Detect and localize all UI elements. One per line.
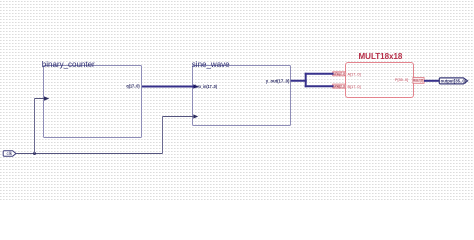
svg-text:P[35..0]: P[35..0] xyxy=(395,78,408,82)
output pin output[35..0] xyxy=(439,78,467,84)
svg-text:MULT18x18: MULT18x18 xyxy=(359,52,403,61)
svg-text:binary_counter: binary_counter xyxy=(42,60,95,69)
pin stub result xyxy=(413,78,424,84)
svg-text:clk: clk xyxy=(6,151,12,156)
wire bus fork vertical xyxy=(305,73,307,87)
svg-text:hex_in(17..0): hex_in(17..0) xyxy=(195,84,218,89)
bus q(17..0) from binary_counter to sine_wave xyxy=(142,86,194,88)
svg-text:DATAA[17..0]: DATAA[17..0] xyxy=(333,72,345,76)
wire clk branch up to binary_counter xyxy=(34,99,36,154)
pin stub dataa xyxy=(333,72,346,76)
arrowhead sine_wave hex_in input xyxy=(193,84,198,88)
wire clk into sine_wave xyxy=(163,116,194,118)
pin stub datab xyxy=(333,84,346,88)
svg-text:B[17..0]: B[17..0] xyxy=(348,85,361,89)
svg-text:sine_wave: sine_wave xyxy=(192,60,230,69)
bus result from MULT18x18 to output pin xyxy=(424,80,440,82)
bus y_out(17..0) from sine_wave xyxy=(291,80,307,82)
input pin clk xyxy=(3,151,16,157)
wire clk into binary_counter xyxy=(35,98,45,100)
wire bus branch to datab xyxy=(305,85,334,87)
wire clk vertical to sine_wave xyxy=(162,117,164,154)
svg-text:q(17..0): q(17..0) xyxy=(126,83,140,88)
svg-text:y_out(17..0): y_out(17..0) xyxy=(266,78,290,83)
arrowhead binary_counter clk input xyxy=(44,96,49,100)
svg-text:RESULT[35]: RESULT[35] xyxy=(413,79,423,83)
block MULT18x18 U1 xyxy=(346,63,414,98)
svg-text:DATAB[17..0]: DATAB[17..0] xyxy=(333,84,345,88)
wire bus branch to dataa xyxy=(305,73,334,75)
svg-text:output[35..0]: output[35..0] xyxy=(441,79,467,84)
svg-text:A[17..0]: A[17..0] xyxy=(348,73,361,77)
block sine_wave xyxy=(193,66,291,126)
arrowhead sine_wave clk input xyxy=(193,114,198,118)
wire clk horizontal run xyxy=(16,153,163,155)
block binary_counter xyxy=(44,66,142,138)
junction clk node xyxy=(33,152,36,155)
